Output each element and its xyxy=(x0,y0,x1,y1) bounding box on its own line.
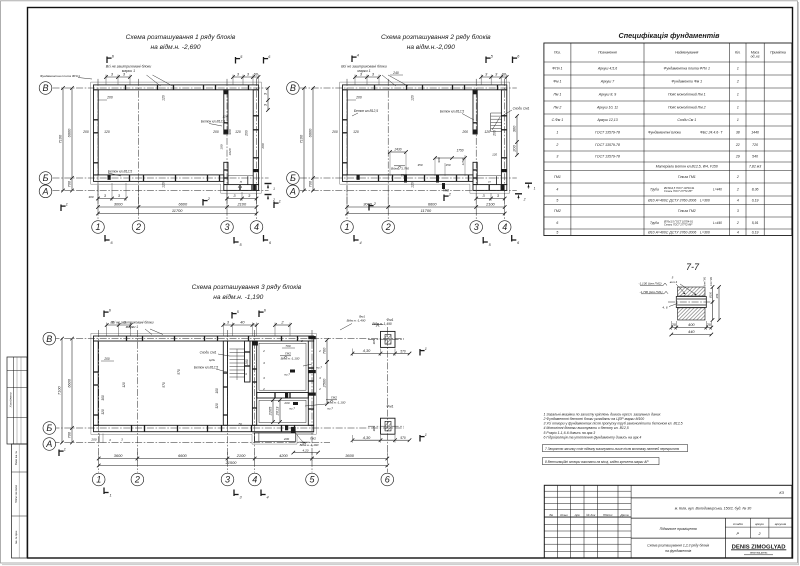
svg-text:2: 2 xyxy=(134,475,140,485)
svg-text:Відм.н.-1,100: Відм.н.-1,100 xyxy=(327,401,346,405)
svg-text:2: 2 xyxy=(272,198,275,202)
plan2 grid bubble axis 1 xyxy=(341,221,354,234)
svg-text:Схема розташування 1,2,3 ряду: Схема розташування 1,2,3 ряду блоків xyxy=(647,544,709,548)
svg-text:200: 200 xyxy=(212,130,219,134)
svg-text:570: 570 xyxy=(162,382,166,388)
plan2 leader concrete B12.5 left xyxy=(352,113,358,116)
svg-text:В: В xyxy=(46,334,52,344)
plan1 foundation plate outline xyxy=(91,82,262,193)
plan2 right side dims xyxy=(516,116,518,155)
plan3 bottom section marks xyxy=(103,488,105,495)
svg-text:Гільза ГМ1: Гільза ГМ1 xyxy=(678,175,696,179)
svg-text:Відм.н.-1,490: Відм.н.-1,490 xyxy=(347,319,366,323)
svg-text:120: 120 xyxy=(353,130,359,134)
svg-text:2: 2 xyxy=(736,175,739,179)
svg-text:120: 120 xyxy=(492,153,497,157)
svg-text:300: 300 xyxy=(88,195,93,199)
specification table grid xyxy=(544,43,792,236)
svg-text:7100: 7100 xyxy=(299,134,304,143)
svg-text:ГМ2: ГМ2 xyxy=(310,437,316,441)
svg-text:зимогляд денис: зимогляд денис xyxy=(750,552,768,555)
svg-text:4: 4 xyxy=(502,222,507,232)
svg-text:Схема розташування 3 ряду блок: Схема розташування 3 ряду блоків xyxy=(192,283,302,291)
plan2 left dimension 7100 xyxy=(303,88,305,191)
plan2 grid bubble row A xyxy=(287,185,300,198)
svg-text:2100: 2100 xyxy=(236,202,246,207)
svg-text:120: 120 xyxy=(411,95,415,101)
svg-text:Позначення: Позначення xyxy=(598,51,617,55)
svg-text:В: В xyxy=(42,83,48,93)
svg-text:Труба: Труба xyxy=(650,221,659,225)
svg-text:7100: 7100 xyxy=(57,385,62,394)
svg-text:2: 2 xyxy=(736,188,739,192)
svg-text:3: 3 xyxy=(225,475,230,485)
svg-text:11700: 11700 xyxy=(421,208,432,213)
svg-text:120: 120 xyxy=(162,95,166,101)
section 7-7 sleeve centerline xyxy=(668,301,714,303)
plan1 grid bubble row B xyxy=(39,172,52,185)
svg-text:38: 38 xyxy=(736,131,740,135)
svg-text:Підпис: Підпис xyxy=(603,513,613,517)
svg-text:1: 1 xyxy=(109,493,111,497)
svg-text:1: 1 xyxy=(64,447,66,451)
plan1 bottom wall xyxy=(94,175,224,182)
svg-text:440: 440 xyxy=(688,329,695,334)
plan2 bottom overall dimension 11700 xyxy=(347,213,505,215)
svg-text:аркушів: аркушів xyxy=(775,522,787,526)
svg-text:200: 200 xyxy=(512,144,517,152)
plan1 top wall xyxy=(94,85,259,90)
svg-text:Взам. інв. №: Взам. інв. № xyxy=(15,451,18,465)
plan1 leader concrete B12.5 right xyxy=(209,124,222,127)
svg-text:540: 540 xyxy=(752,155,758,159)
svg-text:200: 200 xyxy=(90,438,96,442)
plan3 Fm1 detail bottom axis line xyxy=(368,425,404,427)
svg-text:4 Монолітні ділянки виконува: 4 Монолітні ділянки виконувати з бетону … xyxy=(544,426,629,430)
plan2 leader concrete B12.5 middle xyxy=(462,114,474,121)
svg-text:6600: 6600 xyxy=(67,128,72,137)
svg-text:700: 700 xyxy=(285,344,290,348)
svg-text:Аркуш 12,13: Аркуш 12,13 xyxy=(596,118,617,122)
svg-text:5 Розріз 1-1,6-6 дивись на а: 5 Розріз 1-1,6-6 дивись на арк.3 xyxy=(544,431,596,435)
plan1 leader note blocks mark xyxy=(147,75,161,86)
svg-text:Сходи См1: Сходи См1 xyxy=(200,351,217,355)
section 7-7 sleeve pipe xyxy=(676,297,706,308)
svg-text:2: 2 xyxy=(262,349,265,353)
svg-text:300: 300 xyxy=(512,125,517,132)
svg-text:Б: Б xyxy=(46,423,52,433)
plan1 grid bubble row V xyxy=(39,82,52,95)
plan1 interior wall on axis 3 xyxy=(224,90,228,134)
plan1 grid bubble axis 2 xyxy=(132,221,145,234)
svg-text:200: 200 xyxy=(106,96,113,100)
plan3 axis centerlines xyxy=(98,330,100,473)
svg-text:для ГМ2: для ГМ2 xyxy=(710,276,713,286)
svg-text:1: 1 xyxy=(425,433,427,437)
svg-text:на фундаментів: на фундаментів xyxy=(665,549,691,553)
svg-text:Специфікація фундаментів: Специфікація фундаментів xyxy=(619,31,721,40)
plan1 left wall xyxy=(94,90,99,175)
plan3 Fm1 detail top axis line xyxy=(368,339,404,341)
title block address cell xyxy=(631,517,792,519)
title block doc code cell xyxy=(631,497,792,499)
svg-text:Кіл.: Кіл. xyxy=(735,51,741,55)
plan2 section marks lower xyxy=(443,195,445,202)
svg-text:20: 20 xyxy=(671,322,677,327)
svg-text:Дата: Дата xyxy=(619,513,628,517)
svg-text:марки 1: марки 1 xyxy=(122,69,135,73)
plan2 bottom annotation extension hairlines xyxy=(389,153,391,176)
svg-text:11700: 11700 xyxy=(172,208,183,213)
svg-text:1 Загальні вказівки по захис: 1 Загальні вказівки по захисту кріплень … xyxy=(544,412,661,416)
plan3 left dimensions xyxy=(61,339,63,443)
svg-text:120: 120 xyxy=(104,130,110,134)
plan2 top wall xyxy=(343,85,507,90)
svg-text:150: 150 xyxy=(445,163,450,167)
svg-text:А: А xyxy=(45,439,52,449)
svg-text:2: 2 xyxy=(262,387,265,391)
svg-text:по.7: по.7 xyxy=(289,407,295,411)
plan3 wing divider wall xyxy=(257,393,309,399)
svg-text:Інв. № ориг.: Інв. № ориг. xyxy=(15,530,18,544)
svg-text:Фундаментна плита ФПл 1: Фундаментна плита ФПл 1 xyxy=(664,67,710,71)
plan3 bottom dimension segments xyxy=(99,458,388,460)
svg-text:L=440: L=440 xyxy=(713,221,722,225)
plan1 bottom overall dimension 11700 xyxy=(98,213,257,215)
svg-text:700: 700 xyxy=(67,180,72,187)
svg-text:6: 6 xyxy=(385,475,390,485)
svg-text:аркуш: аркуш xyxy=(755,522,764,526)
svg-text:Всі не заштриховані блоки: Всі не заштриховані блоки xyxy=(111,321,154,325)
svg-text:20: 20 xyxy=(706,322,712,327)
svg-text:320: 320 xyxy=(215,403,219,409)
svg-text:21500: 21500 xyxy=(225,460,238,465)
svg-text:Бетон кл.В12,5: Бетон кл.В12,5 xyxy=(194,366,218,370)
left margin approvals table xyxy=(7,357,27,444)
svg-text:5: 5 xyxy=(556,198,558,202)
svg-text:120: 120 xyxy=(411,182,415,188)
plan2 interior wall on axis 3 xyxy=(473,90,477,134)
svg-text:Фм1: Фм1 xyxy=(387,318,394,322)
svg-text:4: 4 xyxy=(252,475,257,485)
svg-text:570: 570 xyxy=(400,436,406,440)
plan3 stairs label xyxy=(218,354,230,356)
svg-text:Пояс монолітний Пм 1: Пояс монолітний Пм 1 xyxy=(668,93,706,97)
svg-text:С.Фм 1: С.Фм 1 xyxy=(552,118,564,122)
svg-text:Найменування: Найменування xyxy=(675,51,698,55)
svg-text:1: 1 xyxy=(556,131,558,135)
plan1 grid bubble axis 3 xyxy=(221,221,234,234)
svg-text:по.7: по.7 xyxy=(327,407,333,411)
plan2 left dimension 6600 xyxy=(312,88,314,191)
svg-text:1750: 1750 xyxy=(456,149,463,153)
svg-text:5,91: 5,91 xyxy=(752,221,759,225)
svg-text:200: 200 xyxy=(461,130,468,134)
svg-text:Схема розташування 1 ряду блок: Схема розташування 1 ряду блоків xyxy=(126,33,236,41)
svg-text:L=300: L=300 xyxy=(700,198,710,202)
plan2 bottom dimension line segments xyxy=(347,206,505,208)
svg-text:305: 305 xyxy=(372,426,376,431)
plan1 top small dimensions xyxy=(106,76,130,78)
plan2 stairs label leader xyxy=(502,110,512,116)
plan2 leader note blocks mark xyxy=(382,75,396,86)
svg-text:2: 2 xyxy=(385,222,391,232)
svg-text:200: 200 xyxy=(261,143,265,149)
svg-text:200: 200 xyxy=(493,130,497,137)
title block stage columns xyxy=(631,537,792,539)
svg-text:Відмц.-1,790: Відмц.-1,790 xyxy=(391,167,409,171)
plan2 bottom section cut marks xyxy=(353,235,355,242)
svg-text:7 Зворотню засипку стін підв: 7 Зворотню засипку стін підвалу виконува… xyxy=(545,447,679,451)
svg-text:6600: 6600 xyxy=(178,453,187,458)
svg-text:1: 1 xyxy=(66,202,68,206)
svg-text:2: 2 xyxy=(300,339,303,343)
plan1 grid bubble row A xyxy=(39,185,52,198)
plan2 grid bubble axis 3 xyxy=(470,221,483,234)
title block left revision table xyxy=(557,485,559,558)
svg-text:7,82 м3: 7,82 м3 xyxy=(749,164,761,168)
svg-text:4: 4 xyxy=(737,230,739,234)
svg-text:Підпис та дата: Підпис та дата xyxy=(15,484,18,503)
svg-text:Підвальне приміщення: Підвальне приміщення xyxy=(660,527,697,531)
svg-text:Ø150: Ø150 xyxy=(709,291,712,299)
boxed note 7 xyxy=(543,445,688,452)
svg-text:Фундаменти Фм 1: Фундаменти Фм 1 xyxy=(672,80,703,84)
svg-text:вип.4: вип.4 xyxy=(670,280,678,284)
svg-text:8 Вентиляційні отвори викона: 8 Вентиляційні отвори виконати на місці,… xyxy=(545,460,649,464)
svg-text:2013: 2013 xyxy=(275,406,280,416)
plan2 grid bubble axis 4 xyxy=(498,221,511,234)
section 7-7 upper wall hatch xyxy=(678,287,706,296)
svg-text:200: 200 xyxy=(245,130,249,137)
svg-text:Бетон кл.В12,5: Бетон кл.В12,5 xyxy=(201,120,225,124)
svg-text:3: 3 xyxy=(224,222,229,232)
svg-text:Ø76: Ø76 xyxy=(716,293,719,299)
plan1 leader foundation plate label xyxy=(78,78,92,80)
svg-text:1: 1 xyxy=(737,67,739,71)
plan2 top small dimensions xyxy=(355,76,379,78)
svg-text:1440: 1440 xyxy=(751,131,759,135)
svg-text:2 Фундаментні бетонні блоки: 2 Фундаментні бетонні блоки укладати на … xyxy=(543,417,645,421)
svg-text:2: 2 xyxy=(135,222,141,232)
plan2 grid bubble row B xyxy=(287,172,300,185)
left margin inventory cells xyxy=(12,444,28,558)
plan3 top section cut marks xyxy=(103,311,105,318)
plan1 bottom-left small dims xyxy=(98,198,126,200)
svg-text:6600: 6600 xyxy=(428,202,437,207)
svg-text:Б: Б xyxy=(290,173,296,183)
plan1 bottom section cut marks xyxy=(104,235,106,242)
svg-text:од.,кг: од.,кг xyxy=(751,55,760,59)
svg-text:1: 1 xyxy=(737,93,739,97)
section 7-7 lower wall hatch xyxy=(678,308,706,320)
svg-text:Фундаментна плита ФПл1: Фундаментна плита ФПл1 xyxy=(40,74,80,78)
svg-text:120: 120 xyxy=(122,382,126,388)
svg-text:ГМ2: ГМ2 xyxy=(331,396,337,400)
svg-text:Примітка: Примітка xyxy=(770,51,786,55)
plan3 grid bubble row V xyxy=(43,332,56,345)
plan3 overall dimension 21500 xyxy=(99,465,388,467)
svg-text:Б: Б xyxy=(43,173,49,183)
svg-text:L=300: L=300 xyxy=(700,230,710,234)
svg-text:ГОСТ 13579-78: ГОСТ 13579-78 xyxy=(595,155,620,159)
plan3 Fm1 detail bottom square xyxy=(381,418,396,434)
svg-text:5: 5 xyxy=(556,230,558,234)
svg-text:7-7: 7-7 xyxy=(686,262,700,272)
svg-text:700: 700 xyxy=(322,347,327,354)
svg-text:-1,790 (для ГМ1): -1,790 (для ГМ1) xyxy=(640,290,663,294)
svg-text:Матеріали Бетон кл.В12,5, W4,: Матеріали Бетон кл.В12,5, W4, F150 xyxy=(656,164,718,168)
plan2 grid bubble row V xyxy=(287,82,300,95)
svg-text:700: 700 xyxy=(308,180,313,187)
svg-text:0,19: 0,19 xyxy=(752,198,759,202)
svg-text:111: 111 xyxy=(238,185,243,189)
plan2 left wall xyxy=(343,90,348,175)
svg-text:4200: 4200 xyxy=(279,453,288,458)
svg-text:Бетон кл.В12,5: Бетон кл.В12,5 xyxy=(354,109,378,113)
plan3 monolith dark joints wing xyxy=(252,342,258,346)
svg-text:900: 900 xyxy=(228,129,232,134)
svg-text:2100: 2100 xyxy=(236,453,246,458)
svg-text:1: 1 xyxy=(737,106,739,110)
plan3 concrete label xyxy=(216,369,227,372)
svg-text:720: 720 xyxy=(752,143,758,147)
svg-text:1: 1 xyxy=(279,199,281,203)
svg-text:1: 1 xyxy=(534,187,536,191)
svg-text:1020: 1020 xyxy=(228,148,232,155)
svg-text:на відм.н.-2,090: на відм.н.-2,090 xyxy=(407,43,456,51)
svg-text:ГОСТ 13579-78: ГОСТ 13579-78 xyxy=(595,131,620,135)
svg-text:6600: 6600 xyxy=(67,378,72,387)
plan3 blocks note leader xyxy=(145,329,152,335)
plan3 lower protrusion outline xyxy=(254,433,295,442)
plan3 Fm1 detail top square xyxy=(381,331,396,347)
plan2 axis centerlines xyxy=(346,79,348,220)
svg-text:350: 350 xyxy=(417,163,422,167)
svg-text:2: 2 xyxy=(523,197,526,201)
plan3 foundation outline xyxy=(91,333,316,444)
plan1 bottom dimension line segments xyxy=(98,206,257,208)
svg-text:Фм 1: Фм 1 xyxy=(553,80,561,84)
svg-text:1: 1 xyxy=(344,222,349,232)
svg-text:Бетон кл.В12,5: Бетон кл.В12,5 xyxy=(440,110,464,114)
svg-text:2430: 2430 xyxy=(393,148,401,152)
svg-text:Бетон кл.В12,5: Бетон кл.В12,5 xyxy=(108,170,132,174)
svg-text:А: А xyxy=(41,187,48,197)
svg-text:2500: 2500 xyxy=(322,378,327,388)
svg-text:Схема розташування 2 ряду блок: Схема розташування 2 ряду блоків xyxy=(381,33,491,41)
plan2 right wall xyxy=(501,90,506,185)
svg-text:Кільк: Кільк xyxy=(560,513,568,517)
svg-text:22: 22 xyxy=(735,143,740,147)
plan2 foundation plate outline xyxy=(340,82,510,193)
svg-text:Ø10 А=400С ДСТУ 3760-2006: Ø10 А=400С ДСТУ 3760-2006 xyxy=(647,198,696,202)
plan1 grid bubble axis 1 xyxy=(92,221,105,234)
svg-text:4: 4 xyxy=(357,53,359,57)
svg-text:Гільза ГМ2: Гільза ГМ2 xyxy=(678,209,696,213)
svg-text:6 Гідроізоляція та утеплення: 6 Гідроізоляція та утеплення фундаменту … xyxy=(544,435,642,439)
svg-text:8,36: 8,36 xyxy=(752,188,759,192)
svg-text:124: 124 xyxy=(222,115,227,119)
svg-text:200: 200 xyxy=(283,401,289,405)
svg-text:ГМ2: ГМ2 xyxy=(285,352,291,356)
plan1 monolith dark joints xyxy=(224,90,228,94)
plan1 right wall xyxy=(253,90,258,185)
svg-text:Аркуш 8, 9: Аркуш 8, 9 xyxy=(598,93,616,97)
svg-text:2205: 2205 xyxy=(268,406,273,416)
boxed note 8 xyxy=(543,458,660,465)
plan2 monolith dark joints xyxy=(473,90,477,94)
svg-text:570: 570 xyxy=(400,349,406,353)
title block outer box xyxy=(544,485,792,558)
svg-text:м. Київ, вул. Володимирська, 1: м. Київ, вул. Володимирська, 150/2, буд.… xyxy=(675,506,752,510)
plan3 wing left wall on axis 4 xyxy=(252,341,256,425)
svg-text:4,30: 4,30 xyxy=(363,435,371,440)
svg-text:3000: 3000 xyxy=(114,202,123,207)
plan2 grid bubble axis 2 xyxy=(382,221,395,234)
svg-text:Відм.н.-1,490: Відм.н.-1,490 xyxy=(372,322,392,326)
plan1 top section cut marks xyxy=(106,57,108,64)
svg-text:Арк: Арк xyxy=(574,513,581,517)
svg-text:А: А xyxy=(289,187,296,197)
svg-text:4: 4 xyxy=(359,241,361,245)
svg-text:200: 200 xyxy=(355,96,362,100)
svg-text:Поз.: Поз. xyxy=(554,51,561,55)
svg-text:400: 400 xyxy=(688,322,695,327)
plan3 under-wing second belt line xyxy=(252,432,313,434)
svg-text:120: 120 xyxy=(162,182,166,188)
plan3 top small dims and marks xyxy=(107,324,131,326)
svg-text:2: 2 xyxy=(736,221,739,225)
svg-text:стадія: стадія xyxy=(733,522,743,526)
svg-text:2: 2 xyxy=(555,143,558,147)
svg-text:Ø10 А=400С ДСТУ 3760-2006: Ø10 А=400С ДСТУ 3760-2006 xyxy=(647,230,696,234)
svg-text:2: 2 xyxy=(318,349,321,353)
svg-text:Р: Р xyxy=(737,532,740,536)
svg-text:№ док: № док xyxy=(586,513,596,517)
svg-text:200: 200 xyxy=(103,357,110,361)
svg-text:900: 900 xyxy=(437,157,441,162)
plan2 below-room small dims xyxy=(476,198,505,200)
svg-text:по.7: по.7 xyxy=(284,373,290,377)
svg-text:L=440: L=440 xyxy=(713,188,722,192)
svg-text:200: 200 xyxy=(331,130,338,134)
svg-text:Ц2Ь: Ц2Ь xyxy=(209,358,215,362)
svg-text:Сходи См 1: Сходи См 1 xyxy=(677,118,696,122)
plan2 bottom wall xyxy=(343,175,474,182)
svg-text:марки 1: марки 1 xyxy=(126,325,139,329)
plan3 grid bubble row B xyxy=(43,422,56,435)
plan1 small right-side dims xyxy=(267,88,269,110)
svg-text:ГОСТ 13579-78: ГОСТ 13579-78 xyxy=(595,143,620,147)
plan3 bottom wall xyxy=(94,425,314,431)
plan1 left dimension 6600 xyxy=(71,88,73,191)
plan1 left dimension 7100 xyxy=(62,88,64,191)
svg-text:КЗ: КЗ xyxy=(779,491,784,495)
svg-text:2100: 2100 xyxy=(485,202,495,207)
svg-text:100: 100 xyxy=(215,388,219,394)
plan2 lower right room walls xyxy=(473,185,507,191)
svg-text:240: 240 xyxy=(392,71,399,75)
svg-text:2: 2 xyxy=(318,387,321,391)
svg-text:0,19: 0,19 xyxy=(752,230,759,234)
svg-text:1: 1 xyxy=(95,222,100,232)
svg-text:1: 1 xyxy=(425,347,427,351)
svg-text:200: 200 xyxy=(82,130,89,134)
svg-text:3: 3 xyxy=(556,155,558,159)
svg-text:120: 120 xyxy=(484,130,490,134)
svg-text:4: 4 xyxy=(266,495,268,499)
